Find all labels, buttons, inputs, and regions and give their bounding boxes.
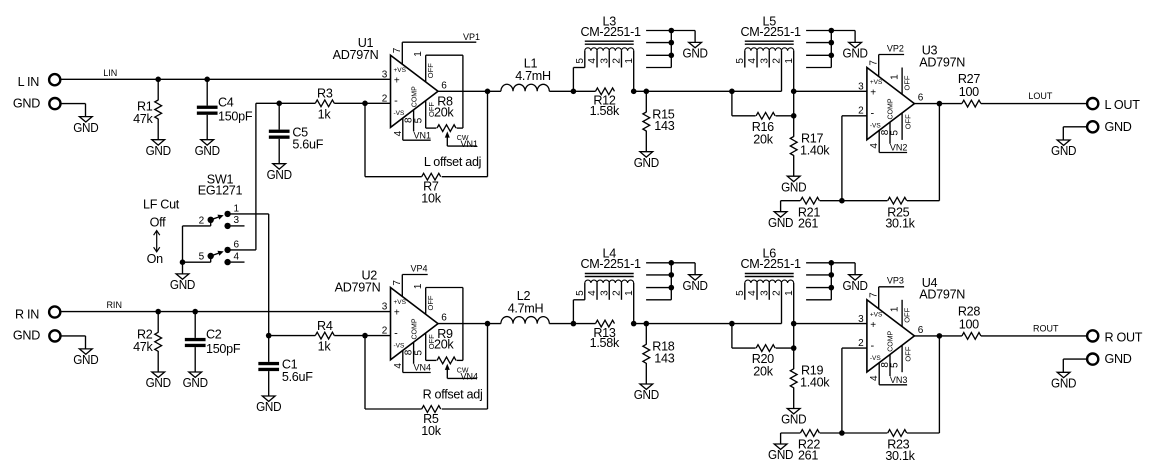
svg-text:OFF: OFF — [903, 114, 912, 129]
svg-text:100: 100 — [959, 85, 979, 99]
svg-text:VN1: VN1 — [460, 139, 478, 149]
svg-text:2: 2 — [858, 338, 864, 349]
inductor L4 CM-2251-1 core — [585, 273, 634, 275]
svg-text:3: 3 — [382, 302, 388, 313]
svg-text:4: 4 — [393, 130, 404, 136]
op-amp U4 AD797N triangle — [867, 300, 915, 372]
svg-text:20k: 20k — [753, 132, 773, 146]
wire SW1 pin 2 to ground bus — [210, 221, 212, 226]
wire inverting input — [842, 115, 867, 117]
svg-text:3: 3 — [599, 290, 610, 296]
resistor R4 1k — [315, 332, 334, 339]
svg-text:GND: GND — [146, 144, 171, 158]
svg-text:10k: 10k — [421, 192, 441, 206]
svg-text:VN4: VN4 — [460, 372, 478, 382]
svg-text:3: 3 — [234, 215, 240, 226]
svg-text:5: 5 — [735, 290, 746, 296]
svg-text:1.40k: 1.40k — [800, 143, 830, 157]
wire RIN input line — [61, 311, 390, 313]
SW1 pole A arm 2->1 — [211, 217, 219, 220]
port GND (input) — [49, 98, 60, 109]
svg-text:5: 5 — [199, 252, 205, 263]
svg-text:4: 4 — [747, 290, 758, 296]
pin 8 stub — [413, 110, 415, 132]
junction choke2 output — [791, 89, 797, 95]
svg-text:261: 261 — [798, 216, 818, 230]
svg-text:7: 7 — [392, 280, 403, 286]
ground (R21) — [780, 201, 782, 212]
svg-text:AD797N: AD797N — [919, 55, 965, 69]
wire into L3 pin 5 — [572, 68, 574, 92]
svg-text:4: 4 — [869, 375, 880, 381]
svg-text:5: 5 — [735, 58, 746, 64]
op-amp U2 AD797N triangle — [391, 288, 439, 360]
pin 4 V- wire (VN2) — [878, 130, 880, 152]
inductor L3 winding — [585, 48, 634, 51]
stub SW1 pin 3 — [231, 225, 245, 227]
junction output node — [937, 101, 943, 107]
resistor R12 1.58k (parallel) — [596, 88, 615, 95]
junction feedback — [362, 101, 368, 107]
svg-text:GND: GND — [781, 180, 806, 194]
L6 ground bus junction — [829, 260, 835, 266]
wire to output port — [981, 335, 1087, 337]
svg-text:1.58k: 1.58k — [590, 336, 620, 350]
svg-text:2: 2 — [612, 58, 623, 64]
port R IN — [49, 306, 60, 317]
wire LIN input line — [61, 78, 390, 80]
offset null box with potentiometer R9 — [425, 288, 427, 315]
wire into L4 pin 5 — [572, 300, 574, 324]
svg-text:On: On — [147, 252, 163, 266]
svg-text:5: 5 — [413, 350, 424, 356]
svg-text:R27: R27 — [958, 72, 980, 86]
L4 pin 2 lead — [620, 283, 622, 300]
svg-text:+: + — [394, 308, 400, 319]
svg-text:VN2: VN2 — [890, 143, 908, 153]
junction choke input — [571, 89, 577, 95]
svg-text:GND: GND — [195, 144, 220, 158]
L6 pin 5 lead — [744, 283, 746, 300]
svg-text:4: 4 — [869, 143, 880, 149]
resistor R13 1.58k (parallel) — [596, 320, 615, 327]
op-amp U1 AD797N triangle — [391, 55, 439, 127]
svg-text:CM-2251-1: CM-2251-1 — [740, 257, 801, 271]
svg-text:2: 2 — [612, 290, 623, 296]
svg-text:COMP: COMP — [411, 318, 418, 339]
L3 pin 4 lead — [596, 51, 598, 68]
svg-text:47k: 47k — [133, 112, 153, 126]
L3 ground bus junction — [669, 53, 675, 59]
pin 4 V- wire (VN3) — [878, 363, 880, 385]
wire output-gnd-port to ground — [1063, 126, 1087, 128]
svg-text:1: 1 — [890, 306, 901, 312]
resistor R20 20k (parallel) — [731, 324, 733, 349]
svg-text:GND: GND — [73, 121, 98, 135]
port L OUT — [1087, 98, 1098, 109]
inductor L5 winding — [745, 48, 794, 51]
wire to first choke — [549, 90, 595, 92]
svg-text:+VS: +VS — [870, 79, 883, 86]
svg-text:GND: GND — [73, 353, 98, 367]
pin 8 stub — [413, 342, 415, 364]
wire to inverting input — [334, 102, 390, 104]
wire to buffer + input — [794, 90, 867, 92]
junction R1 — [155, 77, 161, 83]
svg-text:20k: 20k — [434, 105, 454, 119]
svg-text:L offset adj: L offset adj — [424, 155, 481, 169]
svg-text:-: - — [394, 328, 398, 340]
L4 ground bus junction — [669, 272, 675, 278]
pin 7 V+ wire (VP2) — [878, 55, 880, 77]
inductor L6 CM-2251-1 core — [745, 273, 794, 275]
junction R2 — [155, 309, 161, 315]
svg-text:4: 4 — [587, 58, 598, 64]
svg-text:20k: 20k — [753, 365, 773, 379]
inductor L2 4.7mH — [501, 317, 549, 324]
svg-text:7: 7 — [868, 60, 879, 66]
svg-text:2: 2 — [199, 216, 205, 227]
svg-text:3: 3 — [382, 69, 388, 80]
resistor R25 30.1k — [888, 197, 907, 204]
svg-text:GND: GND — [256, 400, 281, 414]
svg-text:GND: GND — [146, 376, 171, 390]
Off/On toggle arrow — [156, 231, 158, 251]
junction output — [485, 89, 491, 95]
svg-text:261: 261 — [798, 449, 818, 463]
svg-text:5: 5 — [890, 130, 901, 136]
ground (L3 secondary) — [694, 31, 696, 43]
wire to first choke — [549, 323, 595, 325]
svg-text:R IN: R IN — [15, 307, 39, 321]
svg-text:5: 5 — [575, 58, 586, 64]
svg-text:GND: GND — [1105, 120, 1132, 134]
svg-text:GND: GND — [170, 278, 195, 292]
svg-text:+VS: +VS — [394, 67, 407, 74]
wire inverting input — [842, 347, 867, 349]
junction R16 branch — [729, 89, 735, 95]
wire feedback divider row — [781, 432, 801, 434]
svg-text:GND: GND — [634, 156, 659, 170]
svg-text:150pF: 150pF — [206, 342, 241, 356]
ground (output port) — [1057, 140, 1070, 145]
svg-text:+: + — [870, 320, 876, 331]
svg-text:5: 5 — [890, 362, 901, 368]
svg-text:1.40k: 1.40k — [800, 376, 830, 390]
wire to inverting input — [334, 335, 390, 337]
L4 pin 4 lead — [596, 283, 598, 300]
resistor R1 47k to ground — [157, 79, 159, 100]
svg-text:143: 143 — [654, 119, 674, 133]
svg-text:GND: GND — [1105, 352, 1132, 366]
L3 ground bus junction — [669, 28, 675, 34]
resistor R21 261 — [800, 197, 819, 204]
L6 secondary pins to ground — [806, 274, 831, 276]
svg-text:R OUT: R OUT — [1105, 330, 1143, 344]
svg-text:CM-2251-1: CM-2251-1 — [740, 25, 801, 39]
svg-text:GND: GND — [1051, 144, 1076, 158]
svg-text:5: 5 — [575, 290, 586, 296]
L6 pin 3 lead — [768, 283, 770, 300]
capacitor C4 150pF to ground — [206, 79, 208, 105]
L4 secondary pins to ground — [646, 274, 671, 276]
port GND (output) — [1087, 354, 1098, 365]
svg-text:20k: 20k — [434, 338, 454, 352]
junction C5 — [276, 101, 282, 107]
junction C4 — [204, 77, 210, 83]
svg-text:5: 5 — [413, 117, 424, 123]
svg-text:-: - — [871, 340, 875, 352]
svg-text:3: 3 — [599, 58, 610, 64]
wire input-gnd-port to ground — [61, 335, 85, 337]
pin 8 stub — [889, 354, 891, 376]
svg-text:OFF: OFF — [426, 63, 435, 78]
svg-text:GND: GND — [843, 47, 868, 61]
svg-text:6: 6 — [441, 80, 447, 91]
resistor R27 100 — [962, 100, 981, 107]
wire SW1 pin 6 to L-channel node — [228, 249, 256, 251]
svg-text:C2: C2 — [206, 328, 222, 342]
svg-text:5.6uF: 5.6uF — [292, 138, 323, 152]
svg-text:1k: 1k — [318, 340, 332, 354]
L5 pin 1 lead to output node — [793, 51, 795, 116]
pin 1 / pin 5 stubs — [901, 68, 903, 95]
svg-text:GND: GND — [683, 47, 708, 61]
svg-text:EG1271: EG1271 — [198, 184, 243, 198]
resistor R17 1.40k to ground — [793, 116, 795, 137]
ground (R22) — [780, 433, 782, 444]
svg-text:COMP: COMP — [888, 330, 895, 351]
svg-text:4: 4 — [747, 58, 758, 64]
svg-text:OFF: OFF — [426, 295, 435, 310]
resistor R7 10k — [422, 173, 441, 180]
svg-text:C4: C4 — [218, 95, 234, 109]
svg-text:150pF: 150pF — [218, 110, 253, 124]
svg-text:30.1k: 30.1k — [885, 449, 915, 463]
svg-text:1: 1 — [413, 51, 424, 57]
junction C2 — [192, 309, 198, 315]
resistor R23 30.1k — [888, 430, 907, 437]
svg-text:3: 3 — [759, 290, 770, 296]
svg-text:1.58k: 1.58k — [590, 104, 620, 118]
svg-text:100: 100 — [959, 318, 979, 332]
svg-text:47k: 47k — [133, 340, 153, 354]
inductor L3 CM-2251-1 core — [585, 40, 634, 42]
inductor L4 winding — [585, 280, 634, 283]
svg-text:6: 6 — [918, 325, 924, 336]
ground (input port) — [79, 117, 92, 122]
svg-text:143: 143 — [654, 351, 674, 365]
inductor L1 4.7mH — [501, 84, 549, 91]
junction choke input — [571, 321, 577, 327]
svg-text:GND: GND — [843, 279, 868, 293]
svg-text:30.1k: 30.1k — [885, 217, 915, 231]
wire SW1 pin 1 to R-channel node — [228, 213, 269, 215]
svg-text:LOUT: LOUT — [1028, 91, 1053, 101]
junction output — [485, 321, 491, 327]
svg-text:+VS: +VS — [870, 311, 883, 318]
ground (input port) — [79, 349, 92, 354]
svg-text:OFF: OFF — [903, 75, 912, 90]
junction output node — [937, 333, 943, 339]
svg-text:VN1: VN1 — [413, 130, 431, 140]
wire buffer output — [914, 103, 962, 105]
resistor R22 261 — [800, 430, 819, 437]
svg-text:+: + — [394, 75, 400, 86]
wire input-gnd-port to ground — [61, 103, 85, 105]
wire output-gnd-port to ground — [1063, 358, 1087, 360]
wire into L6 pin 2 — [781, 283, 783, 324]
svg-text:4: 4 — [393, 363, 404, 369]
pin 4 V- wire (VN4) — [402, 350, 404, 372]
junction R15 — [644, 89, 650, 95]
svg-text:3: 3 — [858, 82, 864, 93]
svg-text:7: 7 — [868, 292, 879, 298]
L5 ground bus junction — [829, 53, 835, 59]
svg-text:-: - — [871, 108, 875, 120]
wire op-amp output — [438, 323, 501, 325]
svg-text:R offset adj: R offset adj — [423, 387, 483, 401]
svg-text:R3: R3 — [317, 87, 333, 101]
wire SW1 pin 5 to ground bus — [210, 257, 212, 262]
svg-text:1: 1 — [234, 204, 240, 215]
svg-text:GND: GND — [768, 216, 793, 230]
pin 7 V+ wire (VP3) — [878, 287, 880, 309]
svg-text:4.7mH: 4.7mH — [515, 69, 551, 83]
inductor L5 CM-2251-1 core — [745, 40, 794, 42]
svg-text:VP4: VP4 — [410, 263, 427, 273]
pin 1 / pin 5 stubs — [901, 300, 903, 327]
junction R18 — [644, 321, 650, 327]
resistor R16 20k (parallel) — [731, 91, 733, 116]
svg-text:-VS: -VS — [394, 110, 406, 117]
svg-text:3: 3 — [759, 58, 770, 64]
svg-text:3: 3 — [858, 314, 864, 325]
svg-text:+: + — [870, 88, 876, 99]
resistor R19 1.40k to ground — [793, 348, 795, 369]
junction choke2 output — [791, 321, 797, 327]
resistor R2 47k to ground — [157, 312, 159, 333]
L6 pin 1 lead to output node — [793, 283, 795, 348]
svg-text:2: 2 — [772, 290, 783, 296]
svg-text:OFF: OFF — [903, 307, 912, 322]
op-amp U3 AD797N triangle — [867, 68, 915, 140]
junction R17 — [791, 113, 797, 119]
capacitor C5 5.6uF to ground — [278, 103, 280, 129]
svg-text:GND: GND — [634, 388, 659, 402]
svg-text:ROUT: ROUT — [1033, 323, 1059, 333]
svg-text:R28: R28 — [958, 304, 980, 318]
svg-text:GND: GND — [267, 168, 292, 182]
wire to buffer + input — [794, 323, 867, 325]
svg-text:AD797N: AD797N — [335, 280, 381, 294]
svg-text:VP2: VP2 — [887, 43, 904, 53]
SW1 pole B contacts (pins 5-6-4) — [224, 259, 230, 265]
pin 4 V- wire (VN1) — [402, 118, 404, 140]
ground (L4 secondary) — [694, 263, 696, 275]
wire into L5 pin 2 — [781, 51, 783, 92]
svg-text:6: 6 — [441, 313, 447, 324]
wire feedback loop R7 — [364, 103, 366, 176]
svg-text:VN4: VN4 — [413, 363, 431, 373]
resistor R18 143 to ground — [645, 324, 647, 345]
wire choke output row — [634, 323, 782, 325]
svg-text:6: 6 — [234, 240, 240, 251]
resistor R15 143 to ground — [645, 91, 647, 112]
svg-text:CM-2251-1: CM-2251-1 — [580, 25, 641, 39]
svg-text:4.7mH: 4.7mH — [508, 301, 544, 315]
junction R20 branch — [729, 321, 735, 327]
junction feedback — [839, 430, 845, 436]
svg-text:COMP: COMP — [888, 98, 895, 119]
svg-text:AD797N: AD797N — [919, 288, 965, 302]
stub SW1 pin 4 — [231, 261, 245, 263]
L5 ground bus junction — [829, 40, 835, 46]
L4 ground bus junction — [669, 285, 675, 291]
svg-text:GND: GND — [183, 376, 208, 390]
junction C1 / switch feed — [266, 333, 272, 339]
pin 8 stub — [889, 122, 891, 144]
svg-text:Off: Off — [150, 216, 166, 230]
junction R19 — [791, 345, 797, 351]
svg-text:GND: GND — [781, 413, 806, 427]
L5 pin 3 lead — [768, 51, 770, 68]
junction choke output — [631, 321, 637, 327]
wire feedback loop R5 — [364, 336, 366, 409]
svg-text:LIN: LIN — [103, 68, 117, 78]
wire op-amp output — [438, 90, 501, 92]
svg-text:6: 6 — [918, 93, 924, 104]
svg-text:AD797N: AD797N — [333, 48, 379, 62]
svg-text:1: 1 — [890, 74, 901, 80]
L4 pin 1 lead to output — [633, 283, 635, 324]
svg-text:VN3: VN3 — [890, 375, 908, 385]
svg-text:GND: GND — [683, 279, 708, 293]
svg-text:1: 1 — [413, 283, 424, 289]
svg-text:L OUT: L OUT — [1105, 98, 1141, 112]
svg-text:10k: 10k — [421, 424, 441, 438]
svg-text:4: 4 — [587, 290, 598, 296]
resistor R3 1k — [315, 100, 334, 107]
L3 pin 2 lead — [620, 51, 622, 68]
port R OUT — [1087, 330, 1098, 341]
L4 ground bus junction — [669, 260, 675, 266]
ground (SW1) — [176, 274, 189, 279]
L5 pin 4 lead — [756, 51, 758, 68]
svg-text:-: - — [394, 95, 398, 107]
svg-text:5.6uF: 5.6uF — [282, 370, 313, 384]
svg-text:VP3: VP3 — [887, 276, 904, 286]
resistor R5 10k — [422, 406, 441, 413]
wire R4 row — [269, 335, 316, 337]
svg-text:R4: R4 — [317, 319, 333, 333]
junction choke output — [631, 89, 637, 95]
wire choke output row — [634, 90, 782, 92]
svg-text:L IN: L IN — [18, 75, 40, 89]
svg-text:CM-2251-1: CM-2251-1 — [580, 257, 641, 271]
ground (L5 secondary) — [854, 31, 856, 43]
svg-text:-VS: -VS — [870, 355, 882, 362]
capacitor C1 5.6uF to ground — [268, 336, 270, 362]
wire feedback divider row — [781, 200, 801, 202]
svg-text:OFF: OFF — [903, 346, 912, 361]
ground (output port) — [1057, 372, 1070, 377]
svg-text:+VS: +VS — [394, 299, 407, 306]
SW1 pole B arm 5->6 — [211, 253, 219, 256]
svg-text:4: 4 — [234, 251, 240, 262]
junction feedback — [362, 333, 368, 339]
svg-text:7: 7 — [392, 47, 403, 53]
